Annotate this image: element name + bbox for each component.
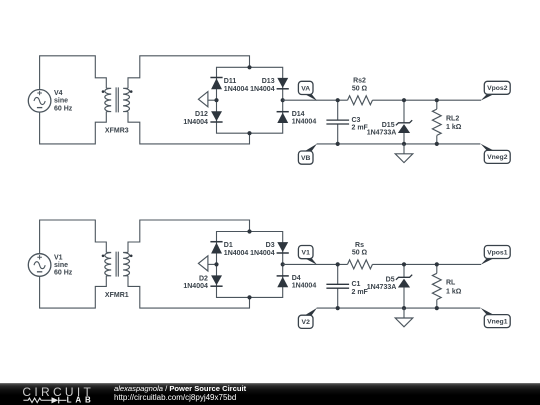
svg-text:D12: D12 [195, 111, 208, 118]
ground [395, 308, 413, 327]
svg-text:V1: V1 [54, 254, 63, 261]
svg-text:C1: C1 [352, 281, 361, 288]
capacitor C3 [326, 100, 368, 144]
transformer XFMR1 [102, 252, 133, 299]
node [402, 262, 406, 266]
CircuitLab logo [0, 383, 110, 405]
svg-text:D11: D11 [224, 78, 237, 85]
node [336, 142, 340, 146]
wire [372, 99, 481, 101]
wire [40, 276, 107, 308]
logo resistor [23, 398, 51, 403]
svg-text:Vneg2: Vneg2 [487, 154, 508, 161]
svg-text:Rs2: Rs2 [353, 78, 366, 85]
node [336, 262, 340, 266]
voltage source V4 [28, 90, 72, 113]
wire [128, 112, 250, 144]
wire (negative rail) [317, 307, 481, 309]
node Vneg2 flag [481, 144, 511, 164]
svg-text:1N4004: 1N4004 [292, 118, 317, 125]
resistor Rs2 [348, 78, 373, 105]
node (bridge top junction) [247, 229, 251, 233]
node VA flag [298, 81, 317, 100]
wire [128, 220, 250, 253]
wire (positive rail) [283, 99, 348, 101]
node VB flag [298, 144, 317, 165]
svg-text:60 Hz: 60 Hz [54, 105, 73, 112]
diode D14 [277, 111, 317, 126]
svg-text:RL2: RL2 [446, 115, 459, 122]
svg-text:D14: D14 [292, 111, 305, 118]
wire [372, 263, 481, 265]
node [435, 306, 439, 310]
svg-text:1 kΩ: 1 kΩ [446, 124, 462, 131]
diode D4 [277, 275, 317, 290]
footer credit text [114, 385, 246, 403]
svg-text:D1: D1 [224, 242, 233, 249]
svg-text:D2: D2 [199, 275, 208, 282]
svg-text:C3: C3 [352, 117, 361, 124]
diode D2 [183, 275, 222, 290]
svg-text:Vneg1: Vneg1 [487, 318, 508, 325]
ground [395, 144, 413, 163]
svg-text:XFMR1: XFMR1 [105, 292, 129, 299]
svg-text:D13: D13 [262, 78, 275, 85]
resistor Rs [348, 242, 373, 269]
svg-text:1N4004: 1N4004 [250, 250, 275, 257]
svg-text:D15: D15 [382, 122, 395, 129]
svg-text:LAB: LAB [67, 396, 95, 405]
wire (bridge square) [217, 67, 283, 133]
node A (open triangle marker) [198, 256, 208, 271]
logo diode [52, 397, 59, 403]
svg-text:VA: VA [301, 85, 310, 92]
diode D11 [210, 78, 248, 93]
resistor RL [432, 264, 461, 308]
wire [40, 112, 107, 144]
svg-text:50 Ω: 50 Ω [352, 85, 368, 92]
svg-text:50 Ω: 50 Ω [352, 250, 368, 257]
capacitor C1 [326, 264, 368, 308]
node (bridge top junction) [247, 65, 251, 69]
wire [40, 220, 107, 254]
node [336, 98, 340, 102]
diode D1 [210, 242, 248, 257]
node V1 flag [298, 246, 317, 265]
wire [128, 56, 250, 89]
node [402, 306, 406, 310]
svg-text:60 Hz: 60 Hz [54, 270, 73, 277]
diode D12 [183, 111, 222, 126]
svg-text:sine: sine [54, 98, 68, 105]
svg-text:1N4004: 1N4004 [224, 250, 249, 257]
svg-text:1N4004: 1N4004 [250, 86, 275, 93]
node Vpos1 flag [481, 246, 511, 265]
wire (positive rail) [283, 263, 348, 265]
node [402, 142, 406, 146]
svg-text:1N4733A: 1N4733A [367, 284, 397, 291]
wire [40, 56, 107, 90]
node [435, 98, 439, 102]
svg-text:D5: D5 [386, 277, 395, 284]
node [435, 262, 439, 266]
zener diode D15 [367, 100, 412, 144]
node (bridge left junction) [214, 98, 218, 102]
svg-text:sine: sine [54, 262, 68, 269]
wire (negative rail) [317, 143, 481, 145]
node Vpos2 flag [481, 81, 511, 100]
svg-text:Rs: Rs [355, 242, 364, 249]
svg-text:1N4004: 1N4004 [183, 119, 208, 126]
transformer XFMR3 [102, 87, 133, 134]
svg-text:VB: VB [301, 155, 311, 162]
node (bridge left junction) [214, 262, 218, 266]
svg-text:D3: D3 [266, 242, 275, 249]
svg-text:XFMR3: XFMR3 [105, 128, 129, 135]
node (bridge right junction) [281, 98, 285, 102]
node [435, 142, 439, 146]
node V2 flag [298, 308, 317, 329]
wire (bridge square) [217, 232, 283, 298]
zener diode D5 [367, 264, 412, 308]
node A (open triangle marker) [198, 92, 208, 107]
node [402, 98, 406, 102]
svg-text:1N4733A: 1N4733A [367, 129, 397, 136]
node (bridge bottom junction) [247, 295, 251, 299]
node Vneg1 flag [481, 308, 511, 328]
diode D3 [250, 242, 289, 257]
wire [208, 263, 217, 265]
voltage source V1 [28, 254, 72, 277]
wire [208, 99, 217, 101]
svg-text:1 kΩ: 1 kΩ [446, 288, 462, 295]
node [336, 306, 340, 310]
svg-text:D4: D4 [292, 275, 301, 282]
svg-text:1N4004: 1N4004 [292, 283, 317, 290]
diode D13 [250, 78, 289, 93]
svg-text:1N4004: 1N4004 [183, 283, 208, 290]
svg-text:V4: V4 [54, 90, 63, 97]
node (bridge bottom junction) [247, 131, 251, 135]
wire [128, 276, 250, 308]
svg-text:Vpos2: Vpos2 [487, 85, 508, 92]
svg-text:1N4004: 1N4004 [224, 86, 249, 93]
node (bridge right junction) [281, 262, 285, 266]
svg-text:V2: V2 [302, 319, 311, 326]
resistor RL2 [432, 100, 461, 144]
svg-text:Vpos1: Vpos1 [487, 249, 508, 256]
svg-text:V1: V1 [302, 250, 311, 257]
svg-text:RL: RL [446, 280, 456, 287]
